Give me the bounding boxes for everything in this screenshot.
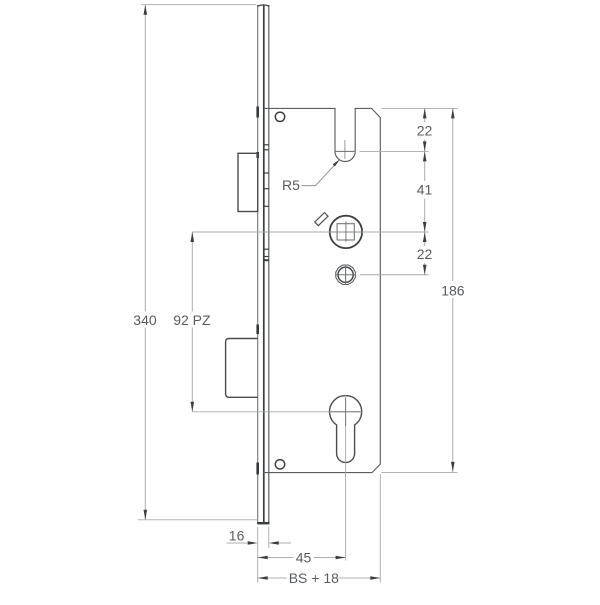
- dimension 16 arrow right: [269, 541, 279, 545]
- threaded hole horizontal centerline: [336, 274, 356, 276]
- euro cylinder crosshair dark vertical: [345, 398, 347, 426]
- dimension 340 line: [144, 5, 146, 312]
- screw hole top: [275, 112, 284, 121]
- dimension 16 arrow left: [248, 541, 258, 545]
- spindle horizontal centerline: [192, 231, 428, 233]
- dimension 92 PZ arrows: [191, 232, 195, 242]
- deadbolt: [226, 339, 258, 398]
- faceplate left edge: [257, 5, 259, 524]
- extension line faceplate bottom: [138, 519, 258, 521]
- dimension 16 line left: [227, 542, 248, 544]
- svg-text:22: 22: [417, 246, 433, 262]
- svg-text:92 PZ: 92 PZ: [173, 312, 211, 328]
- faceplate tick 2: [264, 149, 268, 151]
- extension line faceplate right lower: [268, 527, 270, 548]
- svg-text:41: 41: [417, 182, 433, 198]
- dimension 92 PZ line: [191, 232, 193, 312]
- faceplate tab at deadbolt top: [256, 325, 259, 335]
- euro cylinder hole: [330, 396, 362, 463]
- R5 leader line: [302, 164, 336, 185]
- extension line top edge right: [382, 107, 458, 109]
- faceplate tick 1: [264, 144, 268, 146]
- faceplate right edge: [268, 5, 270, 524]
- dimension BS + 18 line: [258, 577, 287, 579]
- spindle vertical centerline: [345, 221, 347, 241]
- extension line faceplate top: [141, 4, 257, 6]
- latch bolt: [238, 153, 258, 211]
- spindle square hole: [337, 224, 354, 240]
- faceplate middle line: [263, 5, 265, 524]
- extension line faceplate left lower: [257, 527, 259, 583]
- dimension 45 arrows: [258, 556, 268, 560]
- euro cylinder vertical centerline: [345, 395, 347, 560]
- faceplate tick 4: [264, 188, 268, 190]
- svg-text:45: 45: [296, 549, 312, 565]
- extension line notch bottom: [360, 150, 429, 152]
- lock body outline: [263, 108, 380, 472]
- faceplate tick 7: [264, 256, 268, 258]
- screw hole bottom: [275, 460, 284, 469]
- svg-text:16: 16: [229, 528, 245, 544]
- dimension 22 mid line: [424, 232, 426, 246]
- R5 leader arrow: [333, 159, 340, 166]
- threaded hole inner: [338, 267, 353, 282]
- svg-text:22: 22: [417, 122, 433, 138]
- svg-text:340: 340: [133, 312, 157, 328]
- euro cylinder crosshair dark horizontal: [330, 411, 362, 413]
- faceplate tab at body top: [256, 107, 259, 118]
- faceplate tab at body bottom: [256, 463, 259, 475]
- faceplate tick 8: [264, 259, 268, 261]
- extension line body right lower: [379, 474, 381, 583]
- threaded hole extension line right: [360, 274, 429, 276]
- dimension 186 arrows: [451, 108, 455, 118]
- dimension 41 line: [424, 151, 426, 181]
- dimension 22 top arrows: [423, 108, 427, 118]
- threaded hole vertical centerline: [345, 265, 347, 285]
- dimension 41 arrows: [423, 151, 427, 161]
- dimension BS + 18 arrows: [258, 576, 268, 580]
- dimension 45 line: [258, 557, 294, 559]
- notch arc chord line: [335, 150, 355, 152]
- dimension 22 top line: [424, 108, 426, 122]
- svg-text:R5: R5: [282, 177, 300, 193]
- faceplate tick 5: [264, 205, 268, 207]
- svg-text:BS + 18: BS + 18: [289, 570, 339, 586]
- chamfer indicator diamond: [315, 213, 328, 226]
- dimension 16 line right: [279, 542, 291, 544]
- dimension 340 arrows: [144, 5, 148, 15]
- faceplate top cap: [257, 5, 269, 6]
- spindle horizontal centerline dark segment: [330, 231, 362, 233]
- dimension 22 mid arrows: [423, 232, 427, 242]
- faceplate tick 3: [264, 172, 268, 174]
- threaded hole outer thread polygon: [336, 265, 356, 285]
- extension line bottom edge right: [382, 472, 458, 474]
- dimension 186 line: [452, 108, 454, 281]
- notch centerline vertical: [344, 140, 346, 159]
- spindle hub circle: [330, 216, 362, 248]
- euro cylinder horizontal centerline: [192, 411, 363, 413]
- faceplate tab at latch top: [256, 152, 259, 158]
- faceplate tick 6: [264, 248, 268, 250]
- faceplate bottom cap: [257, 522, 269, 524]
- svg-text:186: 186: [441, 283, 465, 299]
